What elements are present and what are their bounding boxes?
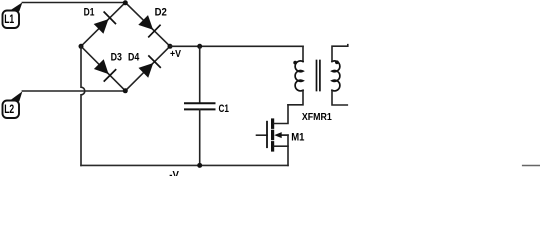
secondary bottom lead stub (332, 90, 347, 105)
wire C1 bottom lead (199, 109, 201, 165)
gate stub wire (257, 134, 268, 136)
secondary top lead stub (332, 45, 348, 62)
junction node -V / C1 bottom (197, 163, 202, 168)
core line right (319, 61, 321, 91)
junction node bridge bottom (123, 88, 128, 93)
svg-text:C1: C1 (219, 103, 229, 115)
bridge side wire B-R (125, 46, 170, 91)
primary winding coil (295, 61, 303, 91)
bridge side wire L-T (81, 3, 125, 47)
svg-text:XFMR1: XFMR1 (302, 112, 332, 123)
wire bridge left corner down with hop over L2 wire (81, 46, 85, 165)
connector flag L2 (3, 91, 23, 118)
junction node +V / C1 tap (197, 44, 202, 49)
svg-text:D1: D1 (84, 7, 95, 19)
primary bottom lead to M1 drain (288, 90, 303, 105)
connector flag L1 (3, 2, 23, 28)
bridge side wire L-B (81, 46, 125, 91)
core line left (316, 61, 318, 91)
capacitor C1 (185, 103, 215, 109)
secondary winding coil (332, 61, 340, 91)
channel bar middle (271, 131, 274, 138)
source lead (274, 145, 288, 147)
svg-text:+V: +V (170, 49, 181, 60)
channel bar bottom (271, 143, 274, 150)
junction node bridge right (168, 44, 173, 49)
diode D4 (139, 56, 161, 78)
transformer XFMR1 (288, 45, 348, 105)
diode D3 (94, 59, 116, 81)
svg-text:L2: L2 (4, 102, 14, 116)
disconnected rail segment bottom right (523, 165, 540, 167)
svg-text:-V: -V (169, 169, 179, 176)
wire -V bottom rail (81, 164, 288, 166)
wire +V rail to transformer (170, 45, 303, 47)
primary top lead from +V wire (302, 46, 304, 61)
transistor M1 (N-MOSFET) (257, 105, 289, 166)
drain lead (274, 105, 288, 124)
wire L1 to bridge top (22, 2, 125, 4)
channel bar top (271, 120, 274, 127)
primary polarity dot (293, 61, 297, 65)
diode D2 (138, 15, 160, 37)
diode D1 (94, 12, 116, 34)
junction node bridge left (79, 44, 84, 49)
svg-text:L1: L1 (4, 12, 14, 26)
junction node bridge top (123, 0, 128, 5)
wire C1 top lead (199, 46, 201, 103)
gate plate (266, 122, 268, 148)
wire L2 to bridge bottom corner (22, 90, 125, 92)
bridge side wire T-R (125, 3, 170, 47)
body/source down wire to rail (287, 135, 289, 165)
svg-text:D3: D3 (111, 52, 122, 64)
secondary polarity dot (335, 60, 339, 64)
svg-text:D2: D2 (155, 7, 167, 19)
svg-text:D4: D4 (128, 52, 140, 64)
body arrow lead (279, 134, 288, 136)
svg-text:M1: M1 (291, 131, 304, 143)
